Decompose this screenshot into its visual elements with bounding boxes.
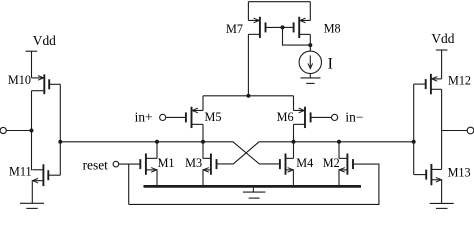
- svg-text:M7: M7: [226, 22, 243, 36]
- tail rail: [203, 95, 294, 97]
- svg-text:M13: M13: [448, 165, 471, 179]
- Vdd label (left): [33, 33, 56, 48]
- wire top rail to M8 source: [309, 2, 311, 21]
- top rail: [248, 1, 310, 3]
- label M12: [448, 74, 471, 88]
- wire current source to ground: [309, 74, 311, 78]
- wire M7 drain to tail: [247, 34, 249, 96]
- Vdd supply bar (left): [26, 50, 38, 52]
- transistor M8 (PMOS diode): [283, 17, 311, 38]
- reset label: [83, 158, 109, 173]
- wire M10 gate to M11 gate: [59, 84, 61, 175]
- in+ label: [135, 110, 153, 125]
- transistor M10 (PMOS): [32, 74, 61, 94]
- node tail junction: [246, 94, 250, 98]
- node right gate bus junction: [412, 140, 416, 144]
- Vdd supply bar (right): [436, 49, 448, 51]
- reset terminal: [113, 161, 119, 167]
- label M3: [185, 156, 202, 170]
- Vdd label (right): [431, 31, 454, 46]
- wire in+ to M5 gate: [166, 116, 186, 118]
- svg-text:M10: M10: [8, 73, 31, 87]
- svg-text:reset: reset: [83, 158, 109, 173]
- wire M8 drain down: [309, 34, 311, 51]
- node M1 drain junction: [155, 140, 159, 144]
- wire gate to M8 drain loop: [283, 27, 311, 45]
- wire M10 drain to M11 drain: [31, 91, 33, 171]
- label M7: [226, 22, 243, 36]
- transistor M12 (PMOS): [414, 74, 442, 95]
- svg-text:Vdd: Vdd: [33, 33, 56, 48]
- transistor M6 (PMOS diff pair): [294, 107, 311, 128]
- transistor M11 (NMOS): [32, 164, 60, 186]
- transistor M3 (NMOS latch): [203, 153, 217, 174]
- node left gate bus junction: [58, 140, 62, 144]
- transistor M13 (NMOS): [414, 164, 442, 185]
- wire right output bus: [216, 142, 413, 164]
- out- terminal: [442, 127, 474, 134]
- wire M11 source to ground: [31, 181, 33, 203]
- wire M6 drain through bus to M4 drain: [293, 124, 295, 158]
- thick common source bar: [144, 185, 362, 188]
- wire M12 gate to M13 gate: [413, 84, 415, 175]
- label M6: [277, 110, 294, 124]
- label M11: [9, 165, 32, 179]
- transistor M1 (NMOS reset switch): [140, 153, 157, 174]
- ground (center): [243, 188, 266, 198]
- wire left output bus: [60, 142, 280, 164]
- wire M5 source to tail rail: [202, 96, 204, 111]
- current source I: [299, 51, 321, 73]
- wire M6 source to tail rail: [293, 96, 295, 111]
- label M10: [8, 73, 31, 87]
- wire top rail to M7 source: [247, 2, 249, 21]
- svg-text:M1: M1: [158, 156, 175, 170]
- label M4: [296, 156, 313, 170]
- wire Vdd to M10 source: [31, 51, 33, 78]
- node M7/M8 gate junction: [281, 25, 285, 29]
- in- label: [345, 110, 363, 125]
- node out+ junction: [30, 129, 34, 133]
- node M2 drain junction: [337, 140, 341, 144]
- node M6 drain junction: [292, 140, 296, 144]
- svg-text:I: I: [328, 55, 333, 72]
- wire M13 source to ground: [441, 180, 443, 204]
- ground (left): [20, 203, 44, 208]
- label M8: [324, 22, 341, 36]
- label M1: [158, 156, 175, 170]
- wire M3 source to bar: [202, 170, 204, 187]
- label I: [328, 55, 333, 72]
- in- terminal: [332, 114, 338, 120]
- label M13: [448, 165, 471, 179]
- svg-text:in+: in+: [135, 110, 153, 125]
- wire M2 source to bar: [338, 170, 340, 187]
- transistor M2 (NMOS reset switch): [339, 153, 353, 174]
- wire reset drop: [128, 164, 130, 204]
- transistor M5 (PMOS diff pair): [186, 107, 203, 128]
- wire M2 drain to bus: [338, 142, 340, 159]
- svg-text:M5: M5: [205, 110, 222, 124]
- wire reset bus to M2 gate: [129, 164, 379, 204]
- svg-text:Vdd: Vdd: [431, 31, 454, 46]
- transistor M7 (PMOS mirror): [248, 17, 282, 38]
- svg-text:in−: in−: [345, 110, 363, 125]
- label M5: [205, 110, 222, 124]
- node M5 drain junction: [201, 140, 205, 144]
- wire M5 drain through bus to M3 drain: [202, 124, 204, 158]
- svg-text:M3: M3: [185, 156, 202, 170]
- node M8 drain junction: [308, 43, 312, 47]
- svg-text:M2: M2: [323, 156, 340, 170]
- svg-text:M4: M4: [296, 156, 313, 170]
- svg-text:M6: M6: [277, 110, 294, 124]
- svg-text:M11: M11: [9, 165, 32, 179]
- wire M4 source to bar: [292, 170, 294, 187]
- transistor M4 (NMOS latch): [280, 153, 294, 174]
- wire reset to M1 gate: [119, 163, 140, 165]
- wire in- to M6 gate: [311, 116, 332, 118]
- svg-text:M12: M12: [448, 74, 471, 88]
- wire Vdd to M12 source: [441, 50, 443, 79]
- ground (right): [430, 203, 454, 208]
- wire M1 source to bar: [156, 170, 158, 187]
- label M2: [323, 156, 340, 170]
- wire M12 drain to M13 drain: [441, 89, 443, 169]
- svg-text:M8: M8: [324, 22, 341, 36]
- ground (current source): [301, 78, 321, 84]
- wire M1 drain to bus: [156, 142, 158, 159]
- out+ terminal: [0, 127, 29, 133]
- in+ terminal: [160, 114, 166, 120]
